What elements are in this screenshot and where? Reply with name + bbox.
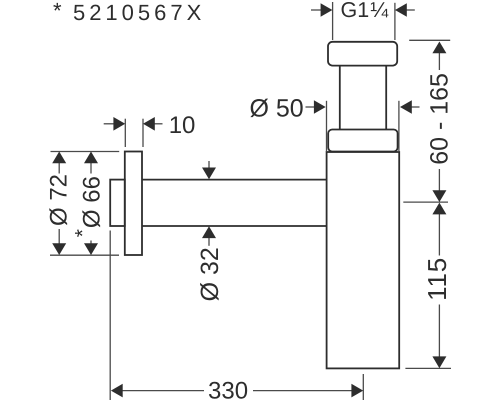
svg-text:G1¼: G1¼ <box>341 0 390 22</box>
dim G1 1/4 left arrow tail <box>311 9 322 11</box>
arrowhead dia72 up <box>52 152 66 164</box>
extension line 60-165 top <box>409 39 450 41</box>
horizontal outlet pipe bottom wall <box>142 225 327 227</box>
vertical inlet pipe left wall <box>339 66 341 130</box>
extension line right of G1 1/4 <box>394 3 396 40</box>
arrowhead dia66 up <box>84 152 98 164</box>
dim dia66 lower tail <box>90 241 92 244</box>
extension line 115 bottom <box>405 367 451 369</box>
dim dia32 upper arrow tail <box>208 161 210 168</box>
vertical inlet pipe right wall <box>385 66 387 130</box>
dim dia72 upper tail <box>58 163 60 174</box>
dim 115 upper shaft <box>438 214 440 256</box>
horizontal outlet pipe top wall <box>142 179 327 181</box>
svg-text:Ø 50: Ø 50 <box>250 95 304 123</box>
arrowhead 10 right <box>143 117 155 131</box>
dim dia50 right arrow tail <box>411 106 419 108</box>
dim 330 left shaft <box>122 390 204 392</box>
arrowhead 330 right <box>351 384 363 398</box>
dim dia66 upper tail <box>90 163 92 174</box>
svg-text:330: 330 <box>208 378 248 400</box>
arrowhead dia50 left <box>314 100 326 114</box>
extension line 330 left (wall line) <box>109 231 111 400</box>
dim 10 left arrow tail <box>104 123 114 125</box>
dim 10 right arrow tail <box>154 123 162 125</box>
wall flange back sleeve <box>110 180 125 226</box>
dim 330 right shaft <box>253 390 352 392</box>
arrowhead 115 up (junction) <box>432 203 446 215</box>
extension line dia72/dia66 top <box>51 151 120 153</box>
svg-text:Ø 72: Ø 72 <box>45 174 72 226</box>
arrowhead dia32 up (at pipe bottom) <box>202 226 216 238</box>
wall flange front plate <box>125 152 142 256</box>
arrowhead G1 1/4 left <box>321 3 333 17</box>
arrowhead 10 left <box>113 117 125 131</box>
svg-text:Ø 32: Ø 32 <box>196 247 224 301</box>
svg-text:*5210567X: *5210567X <box>53 0 205 25</box>
extension line dia50 right <box>398 101 400 152</box>
svg-text:*: * <box>71 229 94 237</box>
arrowhead G1 1/4 right <box>395 3 407 17</box>
svg-text:10: 10 <box>169 112 196 139</box>
arrowhead dia72 down <box>52 243 66 255</box>
svg-text:60 - 165: 60 - 165 <box>425 73 453 165</box>
dim G1 1/4 right arrow tail <box>406 9 415 11</box>
union nut (top, G1 1/4 thread) <box>328 42 397 66</box>
extension line left of G1 1/4 <box>332 2 334 40</box>
extension line 10 right <box>142 119 144 147</box>
cup collar nut <box>328 130 397 152</box>
dim dia72 lower tail <box>58 229 60 244</box>
extension line at pipe centre (60-165 / 115 junction) <box>403 201 448 203</box>
dim 60-165 upper shaft <box>438 53 440 71</box>
extension line 330 right (cup centre) <box>362 374 364 400</box>
arrowhead dia66 down <box>84 243 98 255</box>
arrowhead dia32 down (at pipe top) <box>202 168 216 180</box>
arrowhead 115 down <box>432 356 446 368</box>
dim 60-165 lower shaft <box>438 169 440 191</box>
dim dia32 lower arrow tail <box>208 237 210 246</box>
arrowhead 60-165 up <box>432 42 446 54</box>
extension line dia50 left <box>326 101 328 152</box>
extension line dia72/dia66 bottom <box>50 254 119 256</box>
extension line 10 left <box>124 119 126 147</box>
arrowhead 330 left <box>111 384 123 398</box>
arrowhead 60-165 down (junction) <box>432 190 446 202</box>
siphon cup body <box>327 152 400 368</box>
dim 115 lower shaft <box>438 305 440 358</box>
arrowhead dia50 right <box>400 100 412 114</box>
dim dia50 left arrow tail <box>306 106 315 108</box>
svg-text:Ø 66: Ø 66 <box>78 176 105 228</box>
svg-text:115: 115 <box>422 257 452 301</box>
